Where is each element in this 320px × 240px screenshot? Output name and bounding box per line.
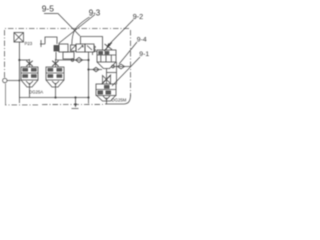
svg-text:9-3: 9-3 [89,8,101,17]
svg-text:9-2: 9-2 [133,12,143,21]
svg-text:9-5: 9-5 [42,3,55,13]
svg-text:DG25M: DG25M [112,98,127,103]
svg-text:P23: P23 [25,41,33,46]
svg-text:9-4: 9-4 [137,36,147,43]
svg-text:9-1: 9-1 [139,51,149,58]
svg-text:DG25A: DG25A [29,90,43,95]
